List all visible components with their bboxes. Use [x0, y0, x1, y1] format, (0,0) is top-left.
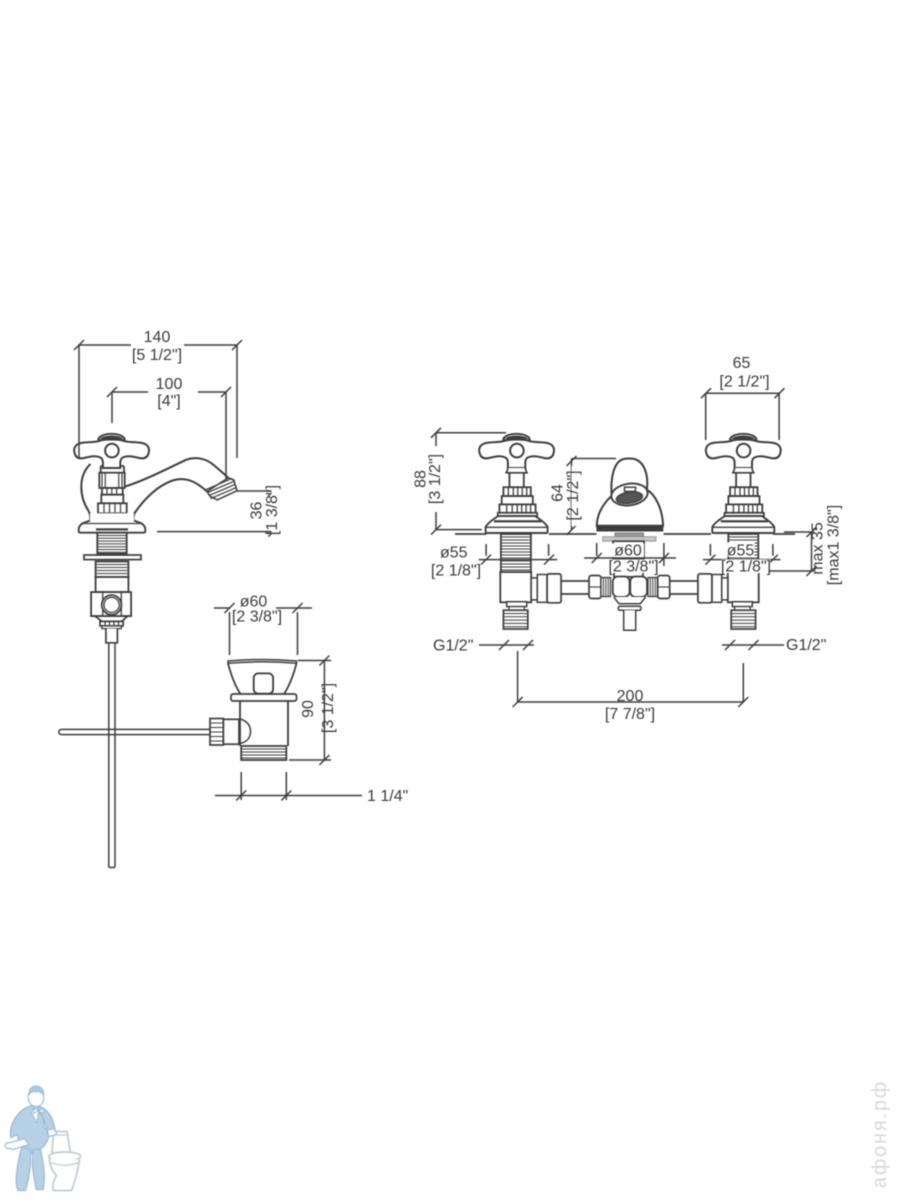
toilet bowl body — [49, 1159, 79, 1191]
svg-text:[2 1/8"]: [2 1/8"] — [721, 559, 771, 576]
dimension 64 — [550, 456, 617, 535]
tap lower threads — [96, 562, 129, 578]
svg-text:[2 1/2"]: [2 1/2"] — [719, 374, 769, 391]
right valve below deck — [670, 534, 759, 629]
union small nut — [537, 575, 547, 603]
svg-text:max 35: max 35 — [810, 522, 827, 575]
svg-text:100: 100 — [156, 376, 183, 393]
svg-text:64: 64 — [550, 484, 567, 502]
dimension ø55 left — [431, 544, 557, 580]
tap stem stack — [98, 466, 127, 513]
knurl right — [648, 578, 658, 597]
wrench hand — [5, 1139, 29, 1150]
mouth ring — [610, 481, 649, 507]
hair — [29, 1086, 44, 1095]
spout lower edge — [137, 479, 208, 510]
body left outline — [81, 464, 90, 520]
drain bottom threads — [241, 746, 286, 760]
svg-text:G1/2": G1/2" — [433, 638, 473, 655]
plumber right leg — [32, 1149, 44, 1190]
svg-text:[7 7/8"]: [7 7/8"] — [605, 706, 655, 723]
watermark — [869, 1080, 891, 1188]
hex facets — [613, 577, 630, 598]
dimension ø55 right — [703, 543, 781, 576]
svg-text:90: 90 — [300, 700, 317, 718]
dimension 100 line — [107, 376, 231, 480]
central tee body — [589, 576, 670, 631]
tap locknut washer — [84, 555, 141, 560]
drain rod port nut — [210, 719, 223, 746]
base dark band — [596, 527, 663, 532]
tap body and spout silhouette — [81, 458, 237, 520]
tail collar — [507, 602, 527, 607]
svg-text:G1/2": G1/2" — [786, 637, 826, 654]
dimension 65 — [701, 355, 785, 440]
svg-text:[3 1/2"]: [3 1/2"] — [320, 683, 337, 733]
toilet bowl rim — [49, 1152, 81, 1161]
dimension ø60 drain — [214, 594, 312, 656]
svg-text:[2 3/8"]: [2 3/8"] — [232, 609, 282, 626]
pop-up vertical rod — [109, 643, 115, 868]
drain rod port flange — [223, 719, 239, 744]
svg-text:1 1/4": 1 1/4" — [367, 788, 408, 805]
dimension max 35 — [769, 505, 843, 585]
tap tail nuts — [95, 616, 128, 629]
union big nut — [547, 574, 561, 603]
svg-text:афоня.рф: афоня.рф — [869, 1080, 891, 1188]
svg-text:ø60: ø60 — [614, 543, 642, 560]
tap lower collar — [96, 577, 129, 592]
hand on tank — [48, 1129, 57, 1136]
svg-text:ø55: ø55 — [727, 543, 755, 560]
tap valve block with port — [91, 592, 131, 616]
washer — [618, 606, 641, 610]
escutcheon collar — [615, 533, 644, 537]
spout mouth rings — [207, 478, 237, 500]
plumber right arm — [38, 1106, 55, 1135]
svg-text:[2 3/8"]: [2 3/8"] — [608, 559, 658, 576]
svg-text:ø55: ø55 — [440, 545, 468, 562]
left handle unit — [479, 434, 554, 533]
dimension 140 line — [74, 329, 242, 459]
dimension 36 — [157, 484, 283, 537]
svg-text:36: 36 — [249, 502, 266, 520]
tap base bell — [79, 513, 146, 532]
svg-text:[max1 3/8"]: [max1 3/8"] — [826, 505, 843, 585]
dimension G1/2 left — [433, 638, 534, 655]
svg-text:200: 200 — [617, 688, 644, 705]
body right outline — [134, 511, 137, 520]
dimension 1 1/4 inch — [215, 772, 408, 805]
drain flange plate — [231, 694, 297, 701]
dimension 200 — [513, 651, 749, 723]
left centre nut — [589, 576, 601, 599]
tap tailpipe — [106, 629, 118, 643]
central spout — [596, 458, 663, 541]
knurl left — [601, 578, 611, 597]
port flange — [531, 578, 537, 600]
dimension ø60 centre — [584, 543, 676, 576]
taper — [614, 597, 646, 604]
shirt lapel — [32, 1108, 39, 1124]
pipe — [561, 581, 589, 594]
svg-text:[4"]: [4"] — [157, 393, 180, 410]
tap threaded shank — [97, 533, 126, 554]
svg-text:140: 140 — [144, 329, 171, 346]
svg-text:[3 1/2"]: [3 1/2"] — [427, 454, 444, 504]
svg-text:[1 3/8"]: [1 3/8"] — [264, 485, 281, 535]
toilet tank — [52, 1132, 71, 1154]
plumber body suit — [10, 1106, 50, 1156]
dimension 88 — [413, 428, 507, 535]
plumber head — [28, 1089, 44, 1107]
tap handle — [74, 434, 149, 468]
pop-up horizontal lever — [59, 729, 210, 734]
central threaded shank — [613, 541, 644, 577]
drain body — [240, 701, 288, 746]
dimension G1/2 right — [722, 637, 826, 654]
tail tube — [624, 610, 636, 630]
left valve below deck — [500, 534, 589, 629]
spout upper edge — [125, 458, 228, 486]
svg-text:65: 65 — [733, 355, 751, 372]
right handle unit — [706, 434, 781, 533]
plumber left leg — [16, 1147, 31, 1191]
deck line — [455, 533, 795, 535]
dimension 90 — [289, 656, 340, 766]
bowtie — [34, 1109, 44, 1114]
tail threads — [503, 610, 527, 629]
drain funnel — [228, 660, 297, 695]
right centre nut — [658, 576, 670, 599]
svg-text:[5 1/2"]: [5 1/2"] — [132, 347, 182, 364]
svg-text:[2 1/2"]: [2 1/2"] — [565, 470, 582, 520]
svg-text:[2 1/8"]: [2 1/8"] — [431, 563, 481, 580]
